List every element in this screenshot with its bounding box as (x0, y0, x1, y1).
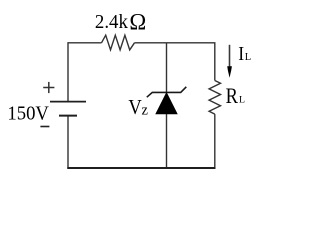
svg-text:L: L (239, 94, 245, 105)
svg-text:2.4k: 2.4k (95, 11, 128, 33)
svg-text:L: L (245, 52, 251, 63)
battery V1 150V bottom plate (-) (59, 115, 77, 117)
resistor R 2.4k zigzag (102, 35, 135, 50)
current arrow IL head (227, 66, 232, 78)
wire right branch bottom (214, 114, 216, 168)
resistor RL zigzag (209, 81, 220, 115)
wire middle branch top (166, 43, 168, 93)
minus sign (40, 126, 49, 128)
wire middle branch bottom (166, 114, 168, 168)
svg-text:150V: 150V (7, 103, 49, 125)
svg-text:I: I (238, 44, 244, 65)
zener diode DZ cathode bar with tails (147, 87, 187, 97)
svg-text:V: V (128, 95, 141, 119)
wire top-right segment (135, 43, 215, 81)
zener diode DZ triangle (156, 93, 177, 114)
wire top-left segment (68, 43, 102, 102)
svg-text:Ω: Ω (129, 9, 146, 34)
svg-text:R: R (226, 83, 239, 108)
current arrow IL shaft (229, 45, 231, 67)
svg-text:z: z (142, 102, 149, 118)
wire left lower (67, 116, 69, 169)
wire bottom (67, 167, 215, 169)
battery V1 150V top plate (+) (50, 101, 86, 103)
plus sign (43, 82, 54, 93)
